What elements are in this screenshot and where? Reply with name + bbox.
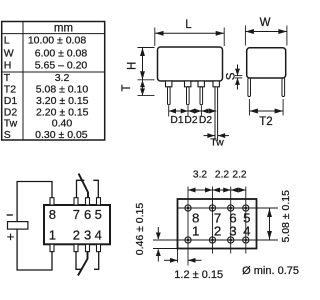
table header mm bbox=[54, 23, 73, 35]
svg-text:D2: D2 bbox=[199, 115, 212, 126]
svg-text:5.08 ± 0.10: 5.08 ± 0.10 bbox=[36, 84, 89, 96]
svg-text:2.2: 2.2 bbox=[215, 170, 229, 181]
dimension Tw bbox=[204, 133, 230, 148]
dimension H bbox=[127, 48, 155, 80]
svg-text:W: W bbox=[4, 47, 14, 59]
svg-text:mm: mm bbox=[54, 23, 73, 35]
svg-text:2.20 ± 0.15: 2.20 ± 0.15 bbox=[36, 106, 89, 118]
svg-text:2.2: 2.2 bbox=[232, 170, 246, 181]
contact blade pin 3 bbox=[78, 252, 88, 276]
svg-text:T2: T2 bbox=[4, 84, 16, 96]
svg-text:6.00 ± 0.08: 6.00 ± 0.08 bbox=[35, 47, 88, 59]
coil K1 bbox=[8, 222, 28, 230]
svg-text:8: 8 bbox=[49, 207, 56, 222]
wire coil bottom to pin 1 bbox=[17, 229, 52, 270]
svg-text:Ø min. 0.75: Ø min. 0.75 bbox=[242, 265, 299, 277]
schematic bottom pin stubs 1 2 3 4 bbox=[50, 244, 101, 251]
front view body bbox=[158, 47, 223, 81]
svg-text:H: H bbox=[4, 59, 12, 71]
svg-text:W: W bbox=[260, 17, 271, 29]
coil polarity minus bbox=[7, 214, 13, 216]
svg-text:2: 2 bbox=[214, 223, 221, 238]
side view pin left bbox=[248, 78, 251, 97]
svg-text:1: 1 bbox=[49, 228, 56, 243]
pcb layout outline bbox=[178, 199, 257, 249]
svg-text:3: 3 bbox=[229, 223, 236, 238]
pcb holes row 8765 bbox=[185, 205, 249, 211]
coil polarity plus bbox=[7, 229, 15, 244]
dimension D1 D2 D2 bbox=[169, 106, 217, 127]
svg-text:Tw: Tw bbox=[210, 136, 224, 148]
svg-text:4: 4 bbox=[95, 228, 102, 243]
side view pin right bbox=[282, 78, 285, 97]
svg-text:T: T bbox=[121, 84, 133, 91]
dimension table bbox=[2, 22, 105, 141]
contact fixed pin 5 bbox=[93, 180, 98, 197]
svg-text:1: 1 bbox=[192, 223, 199, 238]
table row labels bbox=[4, 35, 18, 141]
svg-text:5: 5 bbox=[95, 207, 102, 222]
svg-text:2: 2 bbox=[73, 228, 80, 243]
svg-text:3.2: 3.2 bbox=[193, 170, 207, 181]
dimension L bbox=[155, 19, 224, 46]
svg-text:T: T bbox=[4, 72, 11, 84]
dimension T2 bbox=[249, 99, 283, 128]
contact fixed pin 4 bbox=[94, 252, 99, 270]
pcb hole grid lines bbox=[153, 187, 278, 266]
svg-text:5.08 ± 0.15: 5.08 ± 0.15 bbox=[280, 190, 292, 243]
dimension S bbox=[226, 65, 243, 90]
contact blade pin 6 bbox=[79, 174, 88, 198]
svg-text:+: + bbox=[7, 229, 15, 244]
svg-text:D2: D2 bbox=[4, 106, 18, 118]
contact fixed pin 2 bbox=[76, 252, 81, 270]
svg-text:H: H bbox=[127, 62, 139, 70]
dimension 1.2 bbox=[164, 249, 223, 282]
svg-text:D1: D1 bbox=[170, 115, 183, 126]
svg-text:L: L bbox=[185, 19, 192, 31]
dimension 5.08 bbox=[267, 190, 292, 243]
dimension W bbox=[245, 17, 287, 46]
dimension T bbox=[121, 80, 155, 95]
svg-text:Tw: Tw bbox=[4, 118, 18, 130]
svg-text:D2: D2 bbox=[184, 115, 197, 126]
front view pin 1 bbox=[166, 81, 172, 105]
side view body bbox=[247, 48, 286, 78]
svg-text:0.46 ± 0.15: 0.46 ± 0.15 bbox=[134, 203, 146, 256]
svg-text:6: 6 bbox=[84, 207, 91, 222]
svg-text:0.40: 0.40 bbox=[52, 118, 73, 130]
svg-text:L: L bbox=[4, 35, 10, 47]
svg-text:3: 3 bbox=[84, 228, 91, 243]
front view pin 4 (extended lead) bbox=[213, 81, 219, 141]
pcb pad numbers bbox=[192, 210, 251, 238]
dimension 0.46 bbox=[134, 203, 161, 262]
pcb holes row 1234 bbox=[185, 237, 249, 243]
pcb hole centers bbox=[187, 207, 248, 242]
front view pin 2 bbox=[185, 81, 191, 105]
svg-text:D1: D1 bbox=[4, 95, 18, 107]
svg-text:1.2 ± 0.15: 1.2 ± 0.15 bbox=[174, 269, 223, 281]
svg-text:3.20 ± 0.15: 3.20 ± 0.15 bbox=[36, 95, 89, 107]
svg-text:T2: T2 bbox=[259, 116, 272, 128]
svg-text:5.65 – 0.20: 5.65 – 0.20 bbox=[35, 59, 88, 71]
schematic body bbox=[44, 205, 110, 244]
svg-text:S: S bbox=[226, 72, 238, 80]
wire coil top to pin 8 bbox=[17, 182, 52, 222]
svg-text:0.30 ± 0.05: 0.30 ± 0.05 bbox=[35, 129, 88, 141]
schematic top pin stubs 8 7 6 5 bbox=[50, 198, 101, 205]
table values bbox=[28, 35, 89, 141]
front view pin 3 bbox=[198, 81, 204, 105]
svg-text:4: 4 bbox=[243, 223, 250, 238]
dimension 3.2 2.2 2.2 bbox=[188, 170, 247, 193]
svg-text:7: 7 bbox=[73, 207, 80, 222]
svg-text:3.2: 3.2 bbox=[55, 72, 70, 84]
svg-text:10.00 ± 0.08: 10.00 ± 0.08 bbox=[28, 35, 86, 47]
schematic pin numbers bbox=[49, 207, 102, 243]
svg-text:S: S bbox=[4, 129, 11, 141]
contact fixed pin 7 bbox=[77, 180, 85, 197]
label hole diameter bbox=[242, 265, 299, 277]
